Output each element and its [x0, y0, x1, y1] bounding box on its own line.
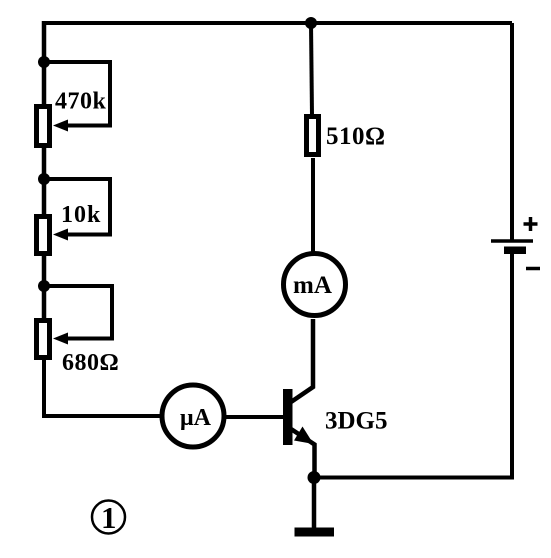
wire: 510 ohm up to top junction	[311, 23, 312, 116]
potentiometer R1 body	[37, 107, 50, 146]
wire: emitter node down to ground	[312, 478, 317, 530]
emitter arrow of Q1 (NPN)	[294, 427, 314, 445]
wire: top supply bus from left rail to battery positive	[42, 21, 512, 25]
wire: microammeter to transistor base	[226, 415, 283, 419]
transistor Q1 collector lead	[291, 319, 313, 402]
value label 470k	[55, 89, 107, 115]
wire: left rail between R2 and R3	[42, 254, 47, 322]
svg-text:μA: μA	[180, 405, 212, 431]
wiper arrow of R1	[53, 120, 68, 132]
figure number circled 1	[92, 500, 125, 535]
transistor Q1 base bar	[283, 389, 293, 445]
transistor Q1 emitter lead	[291, 429, 315, 479]
battery BT1 negative plate (short thick)	[504, 247, 526, 255]
node B: junction above 10k (wiper tie point)	[38, 173, 50, 185]
wire: wiper loop of R2 (10k rheostat connection)	[44, 179, 110, 235]
wiper arrow of R2	[53, 229, 68, 241]
meter mA (milliammeter in collector circuit)	[284, 254, 346, 316]
part label 3DG5	[325, 408, 388, 435]
wire: left rail bottom, R3 to microammeter	[44, 358, 161, 416]
node A: junction above 470k (wiper tie point)	[38, 56, 50, 68]
value label 680 ohm	[62, 350, 119, 376]
potentiometer R3 body	[37, 321, 50, 358]
svg-text:680Ω: 680Ω	[62, 350, 119, 376]
svg-text:1: 1	[101, 500, 117, 535]
node C: junction above 680 ohm (wiper tie point)	[38, 280, 50, 292]
battery BT1 positive plate (long thin)	[491, 239, 533, 243]
wire: wiper loop of R1 (470k rheostat connection)	[44, 62, 110, 126]
node: top junction (collector branch to supply bus)	[305, 17, 317, 29]
wiper arrow of R3	[53, 333, 68, 345]
value label 10k	[61, 202, 101, 228]
polarity mark +	[524, 217, 538, 231]
wire: wiper loop of R3 (680 ohm rheostat connection)	[44, 286, 112, 339]
meter uA (microammeter in base circuit)	[162, 385, 224, 447]
wire: right rail, battery positive up to top bus	[510, 23, 514, 241]
wire: left rail, top bus down to 470k pot	[42, 21, 47, 106]
potentiometer R2 body	[37, 217, 50, 254]
svg-text:510Ω: 510Ω	[326, 123, 386, 150]
polarity mark -	[526, 267, 540, 271]
node: emitter junction to ground and battery return	[308, 471, 321, 484]
wire: bottom return bus, emitter node to battery negative	[314, 476, 512, 480]
svg-text:10k: 10k	[61, 202, 101, 228]
svg-text:3DG5: 3DG5	[325, 408, 388, 435]
svg-text:470k: 470k	[55, 89, 107, 115]
wire: right rail, bottom bus up to battery negative plate	[510, 252, 514, 480]
ground	[295, 528, 335, 537]
svg-text:mA: mA	[293, 272, 332, 299]
wire: left rail between R1 and R2	[42, 146, 47, 218]
wire: milliammeter up to 510 ohm resistor	[311, 158, 315, 253]
resistor R4 body (510 ohm collector resistor)	[307, 117, 319, 155]
value label 510 ohm	[326, 123, 386, 150]
